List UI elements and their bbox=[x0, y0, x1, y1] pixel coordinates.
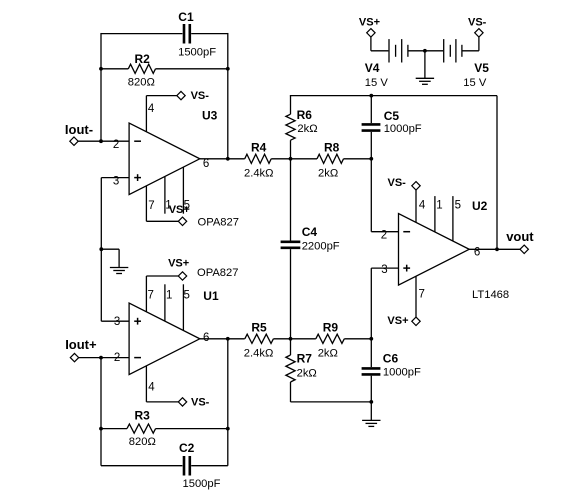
label V5 bbox=[474, 61, 489, 75]
resistor R6 bbox=[286, 114, 295, 140]
svg-text:VS+: VS+ bbox=[169, 204, 190, 216]
pin 3 bbox=[114, 316, 120, 328]
wire bbox=[101, 33, 182, 35]
svg-text:1: 1 bbox=[436, 199, 442, 211]
wire bbox=[191, 33, 228, 35]
svg-text:1500pF: 1500pF bbox=[178, 46, 216, 58]
svg-text:2kΩ: 2kΩ bbox=[297, 367, 317, 379]
wire bbox=[371, 37, 389, 51]
resistor R8 bbox=[317, 154, 344, 163]
svg-text:LT1468: LT1468 bbox=[472, 289, 509, 301]
label R3 bbox=[135, 409, 151, 423]
svg-text:VS+: VS+ bbox=[387, 315, 408, 327]
svg-text:R4: R4 bbox=[251, 141, 267, 155]
value 820Ω bbox=[128, 77, 155, 89]
value 15 V bbox=[463, 77, 487, 89]
node junction bbox=[369, 94, 373, 98]
node VS- bbox=[178, 398, 186, 406]
ground bbox=[362, 420, 380, 426]
svg-text:4: 4 bbox=[419, 199, 426, 211]
value 2kΩ bbox=[297, 123, 317, 135]
node junction bbox=[289, 337, 293, 341]
wire bbox=[182, 167, 184, 214]
wire bbox=[370, 339, 372, 367]
node Iout- bbox=[70, 137, 78, 145]
node junction bbox=[99, 427, 103, 431]
svg-text:820Ω: 820Ω bbox=[129, 436, 156, 448]
wire bbox=[371, 159, 398, 232]
wire bbox=[273, 338, 315, 340]
label VS+ bbox=[169, 204, 190, 216]
svg-text:VS-: VS- bbox=[191, 90, 210, 102]
value 2kΩ bbox=[297, 367, 317, 379]
op-amp U3 minus bbox=[134, 140, 141, 142]
svg-text:15 V: 15 V bbox=[463, 77, 487, 89]
wire bbox=[290, 249, 292, 339]
svg-text:4: 4 bbox=[148, 382, 155, 394]
svg-text:R2: R2 bbox=[135, 52, 151, 66]
op-amp U2 plus bbox=[403, 265, 410, 272]
label VS- bbox=[468, 16, 487, 28]
op-amp U1 minus bbox=[134, 357, 141, 359]
wire bbox=[146, 186, 178, 221]
node VS+ bbox=[178, 217, 186, 225]
label C5 bbox=[384, 109, 400, 123]
wire bbox=[409, 50, 425, 52]
wire bbox=[424, 51, 426, 79]
wire bbox=[100, 178, 102, 322]
pin 1 bbox=[166, 290, 172, 302]
value 2kΩ bbox=[318, 167, 338, 179]
wire bbox=[371, 268, 398, 339]
wire bbox=[101, 320, 129, 322]
pin 1 bbox=[436, 199, 442, 211]
ground bbox=[416, 78, 434, 84]
wire bbox=[227, 33, 229, 159]
capacitor C6 bbox=[362, 368, 381, 374]
wire bbox=[182, 284, 184, 330]
op-amp U1 bbox=[129, 303, 200, 375]
svg-text:V4: V4 bbox=[365, 61, 380, 75]
svg-text:OPA827: OPA827 bbox=[197, 267, 238, 279]
pin 4 bbox=[148, 382, 155, 394]
svg-text:vout: vout bbox=[506, 229, 534, 244]
wire bbox=[370, 402, 372, 421]
svg-text:3: 3 bbox=[114, 316, 120, 328]
node junction bbox=[226, 337, 230, 341]
svg-text:2kΩ: 2kΩ bbox=[297, 123, 317, 135]
wire bbox=[164, 284, 166, 321]
pin 4 bbox=[148, 103, 155, 115]
pin 6 bbox=[203, 332, 209, 344]
label R6 bbox=[297, 108, 313, 122]
wire bbox=[290, 140, 292, 159]
pin 3 bbox=[381, 264, 387, 276]
value 820Ω bbox=[129, 436, 156, 448]
wire bbox=[101, 177, 129, 179]
label R5 bbox=[251, 321, 267, 335]
svg-text:VS+: VS+ bbox=[359, 16, 380, 28]
value 2200pF bbox=[302, 241, 340, 253]
node junction bbox=[99, 67, 103, 71]
value 2.4kΩ bbox=[244, 348, 274, 360]
label U1 bbox=[203, 289, 219, 303]
wire bbox=[370, 96, 372, 124]
label C6 bbox=[383, 351, 399, 365]
svg-text:2.4kΩ: 2.4kΩ bbox=[244, 167, 274, 179]
svg-text:Iout-: Iout- bbox=[65, 122, 93, 137]
svg-text:7: 7 bbox=[148, 200, 154, 212]
node VS- bbox=[412, 182, 420, 190]
node VS- bbox=[475, 29, 483, 37]
svg-text:VS-: VS- bbox=[468, 16, 487, 28]
node VS+ bbox=[412, 317, 420, 325]
label VS+ bbox=[168, 257, 189, 269]
label R8 bbox=[324, 141, 340, 155]
wire bbox=[496, 96, 498, 250]
label vout bbox=[506, 229, 534, 244]
capacitor C4 bbox=[281, 242, 301, 248]
op-amp U1 plus bbox=[134, 318, 141, 325]
svg-text:2: 2 bbox=[381, 229, 387, 241]
pin 1 bbox=[165, 199, 171, 211]
op-amp U2 minus bbox=[403, 231, 410, 233]
node junction bbox=[99, 356, 103, 360]
wire bbox=[156, 68, 228, 70]
node vout bbox=[520, 245, 528, 253]
wire bbox=[101, 249, 119, 267]
capacitor C1 bbox=[184, 24, 190, 44]
wire bbox=[469, 248, 520, 250]
label R2 bbox=[135, 52, 151, 66]
svg-text:Iout+: Iout+ bbox=[65, 337, 97, 352]
svg-text:C5: C5 bbox=[384, 109, 400, 123]
wire bbox=[370, 376, 372, 402]
wire bbox=[290, 95, 497, 97]
battery V5 bbox=[444, 39, 462, 62]
pin 5 bbox=[184, 199, 190, 211]
label LT1468 bbox=[472, 289, 509, 301]
value 15 V bbox=[365, 77, 389, 89]
value 2.4kΩ bbox=[244, 167, 274, 179]
value 1000pF bbox=[384, 123, 422, 135]
label OPA827 bbox=[197, 267, 238, 279]
node junction bbox=[369, 157, 373, 161]
label VS- bbox=[191, 90, 210, 102]
svg-text:2kΩ: 2kΩ bbox=[318, 348, 338, 360]
wire bbox=[370, 132, 372, 159]
resistor R4 bbox=[245, 154, 272, 163]
capacitor C5 bbox=[362, 124, 381, 130]
node VS+ bbox=[178, 272, 186, 280]
wire bbox=[191, 465, 228, 467]
wire bbox=[101, 428, 127, 430]
svg-text:C6: C6 bbox=[383, 351, 399, 365]
node junction bbox=[226, 427, 230, 431]
node junction bbox=[289, 157, 293, 161]
wire bbox=[100, 33, 102, 141]
pin 6 bbox=[203, 158, 209, 170]
svg-text:1000pF: 1000pF bbox=[383, 366, 421, 378]
op-amp U3 bbox=[129, 123, 200, 195]
battery V4 bbox=[389, 39, 408, 62]
node junction bbox=[495, 247, 499, 251]
svg-text:5: 5 bbox=[455, 199, 461, 211]
svg-text:6: 6 bbox=[203, 158, 209, 170]
wire bbox=[100, 358, 102, 466]
value 1500pF bbox=[178, 46, 216, 58]
svg-text:7: 7 bbox=[419, 289, 425, 301]
svg-text:R7: R7 bbox=[297, 351, 313, 365]
pin 5 bbox=[455, 199, 461, 211]
wire bbox=[415, 276, 417, 317]
value 1000pF bbox=[383, 366, 421, 378]
wire bbox=[463, 37, 479, 51]
svg-text:7: 7 bbox=[148, 290, 154, 302]
pin 4 bbox=[419, 199, 426, 211]
ground bbox=[110, 268, 128, 274]
node VS- bbox=[177, 91, 185, 99]
node junction bbox=[369, 400, 373, 404]
wire bbox=[227, 339, 229, 466]
op-amp U3 plus bbox=[134, 174, 141, 181]
wire bbox=[200, 158, 245, 160]
svg-text:R5: R5 bbox=[251, 321, 267, 335]
wire bbox=[452, 196, 454, 241]
label U3 bbox=[202, 108, 218, 122]
svg-text:1: 1 bbox=[166, 290, 172, 302]
resistor R7 bbox=[286, 355, 295, 382]
pin 6 bbox=[474, 247, 480, 259]
wire bbox=[156, 428, 228, 430]
svg-text:C1: C1 bbox=[178, 10, 194, 24]
svg-text:V5: V5 bbox=[474, 61, 489, 75]
wire bbox=[146, 276, 178, 312]
wire bbox=[291, 382, 372, 402]
label C1 bbox=[178, 10, 194, 24]
label VS+ bbox=[359, 16, 380, 28]
svg-text:6: 6 bbox=[474, 247, 480, 259]
wire bbox=[290, 159, 292, 241]
svg-text:U2: U2 bbox=[472, 199, 488, 213]
svg-text:4: 4 bbox=[148, 103, 155, 115]
label Iout- bbox=[65, 122, 93, 137]
svg-text:C2: C2 bbox=[179, 441, 195, 455]
pin 2 bbox=[113, 139, 119, 151]
svg-text:1000pF: 1000pF bbox=[384, 123, 422, 135]
label C2 bbox=[179, 441, 195, 455]
svg-text:R6: R6 bbox=[297, 108, 313, 122]
svg-text:3: 3 bbox=[381, 264, 387, 276]
wire bbox=[271, 158, 317, 160]
node junction bbox=[226, 67, 230, 71]
pin 2 bbox=[114, 352, 120, 364]
svg-text:OPA827: OPA827 bbox=[198, 216, 239, 228]
wire bbox=[200, 338, 245, 340]
wire bbox=[434, 196, 436, 232]
svg-text:R9: R9 bbox=[323, 321, 339, 335]
wire bbox=[344, 338, 371, 340]
wire bbox=[344, 158, 372, 160]
svg-text:2: 2 bbox=[113, 139, 119, 151]
wire bbox=[101, 68, 128, 70]
label Iout+ bbox=[65, 337, 97, 352]
value 2kΩ bbox=[318, 348, 338, 360]
wire bbox=[146, 96, 176, 132]
node Iout+ bbox=[70, 353, 78, 361]
svg-text:VS-: VS- bbox=[388, 177, 407, 189]
svg-text:U1: U1 bbox=[203, 289, 219, 303]
pin 2 bbox=[381, 229, 387, 241]
pin 7 bbox=[419, 289, 425, 301]
svg-text:R8: R8 bbox=[324, 141, 340, 155]
node junction bbox=[99, 139, 103, 143]
wire bbox=[101, 465, 182, 467]
wire bbox=[290, 339, 292, 355]
value 1500pF bbox=[183, 478, 221, 490]
node junction bbox=[369, 337, 373, 341]
node junction bbox=[99, 247, 103, 251]
wire bbox=[415, 190, 417, 222]
label R9 bbox=[323, 321, 339, 335]
wire bbox=[79, 357, 129, 359]
label U2 bbox=[472, 199, 488, 213]
resistor R9 bbox=[316, 334, 345, 343]
svg-text:R3: R3 bbox=[135, 409, 151, 423]
svg-text:5: 5 bbox=[184, 290, 190, 302]
pin 7 bbox=[148, 290, 154, 302]
label R4 bbox=[251, 141, 267, 155]
node junction bbox=[226, 157, 230, 161]
label OPA827 bbox=[198, 216, 239, 228]
label VS- bbox=[191, 397, 210, 409]
label C4 bbox=[302, 225, 318, 239]
svg-text:VS+: VS+ bbox=[168, 257, 189, 269]
label R7 bbox=[297, 351, 313, 365]
pin 5 bbox=[184, 290, 190, 302]
resistor R5 bbox=[245, 334, 274, 343]
capacitor C2 bbox=[184, 456, 190, 476]
resistor R3 bbox=[127, 424, 156, 433]
pin 7 bbox=[148, 200, 154, 212]
svg-text:15 V: 15 V bbox=[365, 77, 389, 89]
wire bbox=[425, 50, 443, 52]
svg-text:U3: U3 bbox=[202, 108, 218, 122]
op-amp U2 bbox=[399, 214, 470, 286]
label V4 bbox=[365, 61, 380, 75]
svg-text:VS-: VS- bbox=[191, 397, 210, 409]
wire bbox=[290, 96, 292, 115]
svg-text:C4: C4 bbox=[302, 225, 318, 239]
resistor R2 bbox=[128, 64, 155, 73]
wire bbox=[164, 176, 166, 213]
node VS+ bbox=[367, 29, 375, 37]
wire bbox=[146, 366, 178, 402]
label VS- bbox=[388, 177, 407, 189]
wire bbox=[78, 140, 129, 142]
svg-text:820Ω: 820Ω bbox=[128, 77, 155, 89]
node junction bbox=[423, 49, 427, 53]
pin 3 bbox=[113, 175, 119, 187]
svg-text:1500pF: 1500pF bbox=[183, 478, 221, 490]
svg-text:2kΩ: 2kΩ bbox=[318, 167, 338, 179]
svg-text:2.4kΩ: 2.4kΩ bbox=[244, 348, 274, 360]
label VS+ bbox=[387, 315, 408, 327]
svg-text:2200pF: 2200pF bbox=[302, 241, 340, 253]
